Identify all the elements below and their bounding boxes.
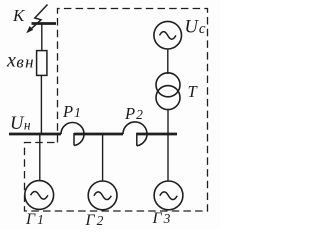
resistor x_vn body — [37, 51, 47, 76]
bus U_n: left segment — [9, 133, 61, 136]
transformer T primary winding — [156, 73, 180, 97]
breaker P2 chord — [136, 133, 138, 146]
source Uc circle — [154, 21, 182, 49]
svg-text:Uc: Uc — [185, 18, 206, 38]
source Uc sine — [160, 32, 176, 40]
svg-text:P1: P1 — [62, 102, 81, 121]
generator G1 sine — [31, 191, 48, 199]
transformer T secondary winding — [156, 86, 180, 110]
wire: transformer T through bus to generator G3 — [167, 110, 169, 182]
svg-text:Г2: Г2 — [85, 212, 104, 229]
svg-text:К: К — [12, 6, 26, 25]
breaker P2 arc — [123, 122, 147, 146]
generator G3 circle — [154, 181, 183, 210]
generator G2 sine — [94, 192, 111, 200]
svg-text:P2: P2 — [124, 104, 143, 123]
breaker P1 arc — [61, 122, 84, 145]
wire: source Uc to transformer T — [167, 49, 169, 74]
short-circuit point K: bar — [32, 22, 57, 25]
breaker P1 chord — [73, 133, 75, 145]
bus U_n: middle segment — [74, 133, 123, 136]
svg-text:Uн: Uн — [10, 114, 31, 134]
svg-text:Г1: Г1 — [25, 211, 44, 228]
svg-text:Г3: Г3 — [152, 210, 171, 227]
system boundary dashed box — [25, 9, 208, 212]
short-circuit lightning arrow — [28, 5, 47, 32]
wire: resistor bottom to bus to generator G1 — [40, 76, 42, 135]
svg-text:T: T — [188, 82, 199, 101]
bus U_n: right segment — [137, 133, 177, 136]
wire: bus to generator G2 — [102, 134, 104, 181]
generator G2 circle — [88, 181, 117, 210]
generator G1 circle — [25, 181, 54, 210]
generator G3 sine — [160, 192, 177, 200]
wire: K bar to resistor top — [41, 25, 43, 51]
short-circuit arrowhead — [26, 26, 33, 33]
svg-text:хвн: хвн — [6, 50, 35, 72]
